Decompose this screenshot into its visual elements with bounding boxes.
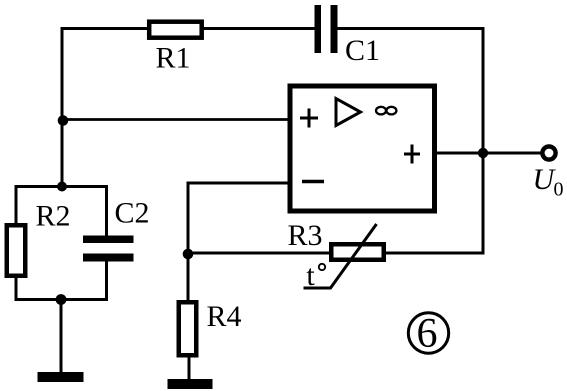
wire: [61, 27, 64, 188]
op-amp triangle symbol: [336, 99, 361, 126]
wire: [482, 27, 485, 255]
node inverting junction: [183, 249, 194, 260]
svg-text:6: 6: [417, 311, 438, 357]
node bottom rail junction: [56, 294, 67, 305]
wire: [62, 118, 290, 121]
wire: [62, 27, 150, 30]
node output junction: [478, 148, 488, 158]
svg-text:C2: C2: [114, 197, 149, 230]
resistor R4: [179, 302, 197, 355]
wire: [105, 260, 108, 301]
ground: [168, 379, 213, 389]
thermistor R3: [304, 224, 384, 288]
wire: [105, 185, 108, 237]
figure number 6: [408, 311, 448, 357]
wire: [188, 182, 290, 185]
label t degrees: [306, 259, 325, 292]
capacitor C2: [83, 236, 134, 262]
wire: [384, 252, 485, 255]
wire: [15, 276, 18, 301]
wire: [187, 182, 190, 303]
op-amp U1: [290, 86, 435, 211]
svg-text:R4: R4: [206, 300, 241, 333]
svg-text:R2: R2: [35, 200, 70, 233]
label Uo: [533, 163, 564, 201]
wire: [435, 152, 542, 155]
op-amp output plus sign: [404, 145, 420, 164]
wire: [201, 27, 316, 30]
wire: [188, 252, 331, 255]
wire: [16, 298, 107, 301]
wire: [16, 185, 107, 188]
ground: [38, 372, 84, 382]
svg-text:t: t: [306, 259, 315, 292]
svg-text:C1: C1: [345, 34, 380, 67]
wire: [60, 300, 63, 375]
wire: [337, 27, 485, 30]
wire: [15, 185, 18, 226]
svg-text:0: 0: [554, 179, 564, 201]
svg-text:R3: R3: [287, 219, 322, 252]
svg-text:R1: R1: [155, 42, 190, 75]
resistor R1: [149, 22, 202, 38]
node top rail junction: [57, 182, 67, 192]
resistor R2: [7, 225, 26, 276]
node junction: [58, 115, 69, 126]
op-amp plus input sign: [300, 109, 318, 128]
wire: [188, 356, 191, 380]
op-amp infinity gain symbol: [376, 107, 396, 115]
capacitor C1: [315, 5, 338, 53]
op-amp minus input sign: [302, 180, 324, 184]
output terminal Uo: [542, 146, 555, 159]
